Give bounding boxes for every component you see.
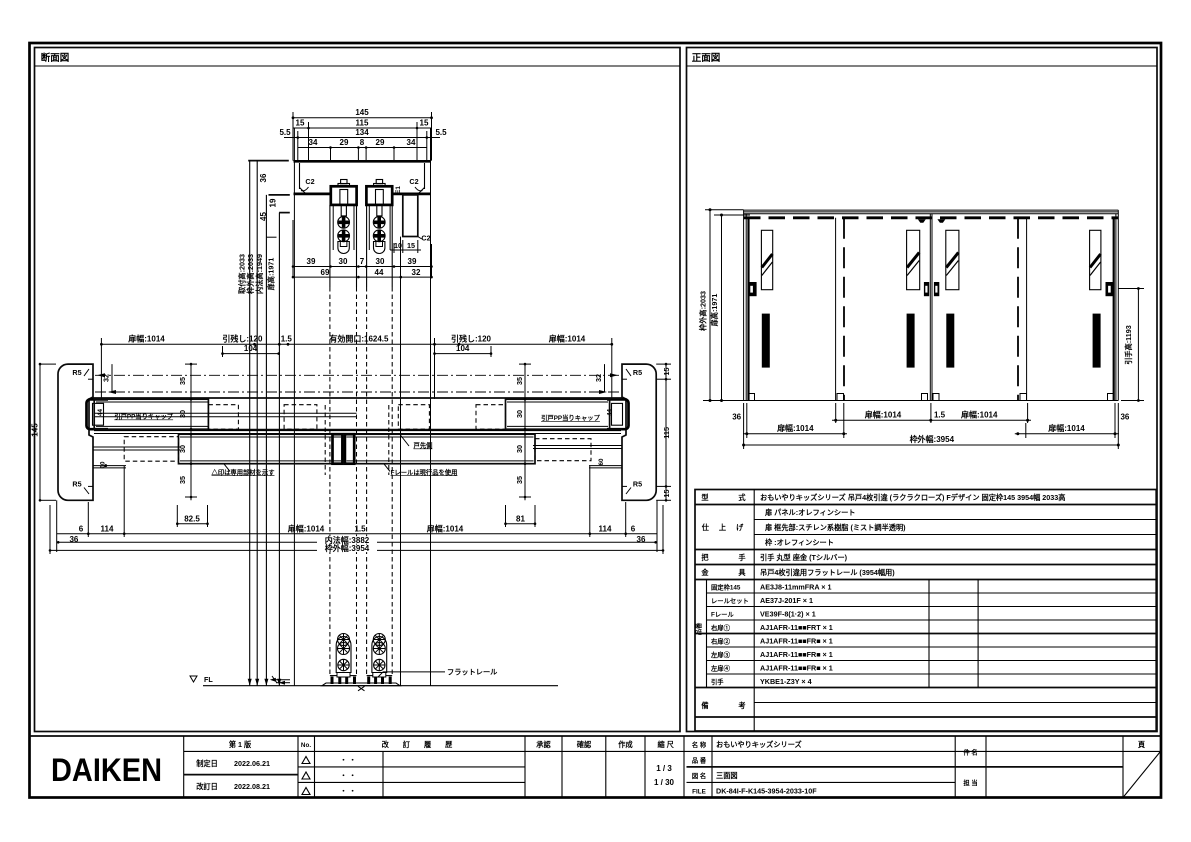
upper band door solid left [94,399,208,429]
window leaf2 [907,230,920,289]
label フラットレール [383,671,445,673]
svg-text:FL: FL [204,675,213,684]
flat rail strip [322,683,400,686]
table outer [695,490,1156,732]
svg-text:三面図: 三面図 [716,771,738,780]
svg-text:32: 32 [594,374,603,382]
phantom door edges dashed [324,405,326,475]
top dim ext verticals [100,338,102,399]
lower band dashed segs [124,437,178,462]
svg-text:114: 114 [599,524,612,533]
svg-text:扉幅:1014: 扉幅:1014 [287,523,325,533]
svg-text:32: 32 [102,374,111,382]
svg-text:6: 6 [79,524,84,533]
page diagonal [1123,751,1161,797]
svg-text:FILE: FILE [692,788,706,795]
svg-text:引手: 引手 [711,677,724,686]
roller assembly right [372,634,387,685]
svg-text:8: 8 [360,138,365,147]
svg-text:AJ1AFR-11■■FR■ × 1: AJ1AFR-11■■FR■ × 1 [760,664,833,673]
handle leaf1 [762,314,770,368]
svg-text:左扉③: 左扉③ [711,650,731,659]
svg-text:右扉②: 右扉② [711,637,731,646]
door stop on frame [403,195,418,237]
handle leaf2 [907,314,915,368]
left jamb outline [58,364,93,500]
sub dim 104 left [222,346,224,357]
svg-text:DAIKEN: DAIKEN [51,752,162,788]
svg-text:29: 29 [340,138,349,147]
svg-text:仕 上 げ: 仕 上 げ [701,523,748,532]
svg-text:2022.08.21: 2022.08.21 [234,782,270,791]
leaf2 side lines [366,205,368,287]
svg-text:30: 30 [376,257,385,266]
svg-text:・ ・: ・ ・ [340,756,356,765]
svg-text:R5: R5 [72,368,81,377]
bottom dim 82.5 [176,505,178,527]
lower guide lines left [93,465,126,467]
svg-text:引手 丸型 座金 (Tシルバー): 引手 丸型 座金 (Tシルバー) [760,553,848,562]
frame left jamb [743,210,745,400]
svg-text:145: 145 [31,423,40,437]
svg-text:1 / 30: 1 / 30 [654,778,675,787]
track centerline 2 [95,391,620,393]
table row lines [695,504,1156,506]
svg-text:改 訂 履 歴: 改 訂 履 歴 [382,740,459,749]
note1 triangle [224,464,230,472]
stop edge long line [400,237,402,686]
svg-text:内法高:1949: 内法高:1949 [255,254,264,294]
svg-text:AJ1AFR-11■■FR■ × 1: AJ1AFR-11■■FR■ × 1 [760,637,833,646]
svg-text:承認: 承認 [536,740,551,749]
svg-text:15: 15 [662,490,671,498]
lower guide lines right [589,465,622,467]
dim 34/29/8/29/34 [298,147,427,149]
lower track lines left [93,446,180,448]
bottom dim row1 [835,403,837,423]
head rail lines [744,209,1119,211]
title block top line [30,735,1161,737]
svg-text:作成: 作成 [618,740,633,749]
svg-text:具: 具 [738,568,746,577]
leaf4 right stile thick [1113,218,1115,401]
right pocket cap [612,403,623,425]
svg-text:35: 35 [515,476,524,484]
leaf1/leaf2 boundary [835,218,837,401]
hidden rail heavy dashed line [744,216,1118,219]
svg-text:△印は専用部材を示す: △印は専用部材を示す [211,467,275,476]
svg-text:145: 145 [355,108,369,117]
track centerline 1 [95,374,620,376]
lower band door solid right [345,434,535,464]
svg-text:引残し:120: 引残し:120 [451,334,492,344]
svg-text:DK-84I-F-K145-3954-2033-10F: DK-84I-F-K145-3954-2033-10F [716,787,817,796]
frame right jamb [1117,210,1119,400]
window leaf3 [946,230,959,289]
svg-text:30: 30 [178,445,187,453]
svg-text:81: 81 [516,514,525,523]
svg-text:15: 15 [420,119,429,128]
edge pull leaf2 [924,282,929,296]
svg-text:頁: 頁 [1138,740,1146,749]
rail center X [358,686,365,691]
svg-text:R5: R5 [72,480,81,489]
svg-text:60: 60 [598,458,605,466]
upper band bottom line [93,429,622,431]
centerline arrows [97,373,105,377]
svg-text:扉幅:1014: 扉幅:1014 [960,410,998,420]
dim 32 right [604,364,606,392]
right chain 15/115/15 [656,363,671,365]
jamb ext verticals [56,500,58,552]
long extension left [293,128,295,686]
height dim lines [249,161,251,686]
upper band track lines [94,430,621,432]
svg-text:2022.06.21: 2022.06.21 [234,759,270,768]
svg-text:34: 34 [309,138,318,147]
svg-text:扉幅:1014: 扉幅:1014 [127,334,165,344]
leaf1 left stile thick [747,218,749,401]
svg-text:YKBE1-Z3Y × 4: YKBE1-Z3Y × 4 [760,677,812,686]
label 戸先側 [400,435,409,447]
edge pull leaf4 [1106,282,1115,296]
svg-text:5.5: 5.5 [279,128,291,137]
edge pull leaf1 [748,282,757,296]
handle leaf4 [1093,314,1101,368]
upper band top line [93,397,622,399]
svg-text:引戸PP当りキャップ: 引戸PP当りキャップ [114,412,173,421]
svg-text:吊戸4枚引違用フラットレール (3954幅用): 吊戸4枚引違用フラットレール (3954幅用) [760,568,895,577]
svg-text:考: 考 [738,701,745,710]
bottom dim 81 [505,505,507,527]
svg-text:44: 44 [97,409,104,417]
handle leaf3 [946,314,954,368]
svg-text:35: 35 [515,377,524,385]
door bottom caps [330,675,337,677]
revision triangles [302,757,310,764]
svg-text:担 当: 担 当 [963,778,977,787]
svg-text:扉幅:1014: 扉幅:1014 [426,523,464,533]
svg-text:36: 36 [1120,412,1129,421]
window leaf4 [1090,230,1101,289]
left panel label strip line [35,65,681,67]
svg-text:備: 備 [701,701,708,710]
hanger marks [918,219,926,223]
dim 145 left rot [39,364,41,500]
right pocket C profile [607,399,629,429]
leaf3/leaf4 boundary [1017,218,1019,401]
svg-text:15: 15 [296,119,305,128]
svg-text:30: 30 [339,257,348,266]
left pocket C profile [87,399,109,429]
svg-text:AJ1AFR-11■■FRT × 1: AJ1AFR-11■■FRT × 1 [760,623,833,632]
svg-text:114: 114 [101,524,114,533]
svg-text:15: 15 [662,368,671,376]
svg-text:確認: 確認 [577,740,592,749]
hanger roller left [330,180,357,254]
svg-text:VE39F-8(1·2) × 1: VE39F-8(1·2) × 1 [760,610,816,619]
svg-text:第 1 版: 第 1 版 [229,740,252,749]
bottom chain row [57,533,657,535]
meeting stile left [333,434,343,464]
svg-text:115: 115 [356,119,369,128]
svg-text:E1: E1 [395,186,402,194]
lower band door solid left [179,434,343,464]
dim 扉高1971 [714,214,750,216]
svg-text:1 / 3: 1 / 3 [656,764,672,773]
edge pull leaf3 [934,282,939,296]
svg-text:扉幅:1014: 扉幅:1014 [776,423,814,433]
svg-text:30: 30 [178,410,187,418]
svg-text:R5: R5 [633,480,642,489]
svg-text:AE3J8-11mmFRA × 1: AE3J8-11mmFRA × 1 [760,583,831,592]
svg-text:Fレールは現行品を使用: Fレールは現行品を使用 [391,467,458,476]
svg-text:引残し:120: 引残し:120 [222,334,263,344]
svg-text:手: 手 [738,553,745,562]
long extension right [430,128,432,686]
dim 枠外幅3954 [49,505,51,554]
svg-text:C2: C2 [305,177,314,186]
svg-text:29: 29 [376,138,385,147]
svg-text:枠外高:2033: 枠外高:2033 [246,254,255,295]
svg-text:フラットレール: フラットレール [447,668,498,677]
svg-text:品番: 品番 [694,622,703,635]
svg-text:36: 36 [259,173,268,182]
dim 145 [292,112,294,161]
dim 32 left [111,364,113,392]
svg-text:把: 把 [701,553,709,562]
FL marker [190,676,197,682]
svg-text:扉幅:1014: 扉幅:1014 [1047,423,1085,433]
svg-text:19: 19 [269,198,278,207]
bottom dim row2 [746,403,748,438]
svg-text:扉幅:1014: 扉幅:1014 [864,410,902,420]
svg-text:AJ1AFR-11■■FR■ × 1: AJ1AFR-11■■FR■ × 1 [760,650,833,659]
svg-text:引手高:1193: 引手高:1193 [1124,325,1133,365]
svg-text:104: 104 [244,344,258,353]
svg-text:名 称: 名 称 [692,740,707,749]
svg-text:戸先側: 戸先側 [414,441,433,450]
svg-text:おもいやりキッズシリーズ: おもいやりキッズシリーズ [716,740,803,749]
svg-text:有効開口:1624.5: 有効開口:1624.5 [329,334,389,344]
svg-text:Fレール: Fレール [711,611,734,619]
svg-text:扉 框先部:スチレン系樹脂 (ミスト調半透明): 扉 框先部:スチレン系樹脂 (ミスト調半透明) [765,523,906,532]
window leaf1 [761,230,772,289]
svg-text:式: 式 [738,493,746,502]
svg-text:固定枠145: 固定枠145 [711,583,741,592]
svg-text:39: 39 [408,257,417,266]
svg-text:15: 15 [407,241,415,250]
svg-text:枠外高:2033: 枠外高:2033 [699,291,708,332]
svg-text:R5: R5 [633,368,642,377]
svg-text:69: 69 [321,268,330,277]
svg-text:39: 39 [307,257,316,266]
svg-text:115: 115 [662,427,671,439]
dim 内法幅3882 [58,541,655,543]
roller assembly left [336,634,351,685]
dim 10/15 stop [393,243,395,253]
svg-text:1.5: 1.5 [354,524,366,533]
right panel label strip line [687,65,1158,67]
chain 35/30/30/35 right [524,364,526,500]
svg-text:右扉①: 右扉① [711,623,731,632]
svg-text:引戸PP当りキャップ: 引戸PP当りキャップ [541,413,600,422]
svg-text:・ ・: ・ ・ [340,787,356,796]
svg-text:枠外幅:3954: 枠外幅:3954 [324,543,370,553]
svg-text:C2: C2 [421,234,430,243]
svg-text:30: 30 [515,410,524,418]
svg-text:30: 30 [515,445,524,453]
dim 39/30/7/30/39 [292,220,294,277]
svg-text:36: 36 [732,412,741,421]
svg-text:5.5: 5.5 [435,128,447,137]
svg-text:件 名: 件 名 [963,748,977,757]
title block verticals [183,736,185,798]
svg-text:104: 104 [456,344,470,353]
svg-text:枠 :オレフィンシート: 枠 :オレフィンシート [764,538,834,547]
right panel border [687,48,1158,732]
dim 15/115/15 [308,122,310,161]
svg-text:型: 型 [701,493,708,502]
svg-text:枠外幅:3954: 枠外幅:3954 [909,434,955,444]
door bottom line [744,400,1119,402]
svg-text:1.5: 1.5 [934,411,946,420]
height dim bottom arrows [248,679,252,686]
note2 F rail [384,464,390,472]
svg-text:正面図: 正面図 [692,53,721,64]
svg-text:扉幅:1014: 扉幅:1014 [548,334,586,344]
upper band dashed segs [208,405,238,430]
svg-text:44: 44 [375,268,384,277]
svg-text:1.5: 1.5 [281,335,293,344]
svg-text:縮 尺: 縮 尺 [658,740,675,749]
leaf1 side lines [329,205,331,287]
svg-text:おもいやりキッズシリーズ 吊戸4枚引違 (ラクラクローズ): おもいやりキッズシリーズ 吊戸4枚引違 (ラクラクローズ) Fデザイン 固定枠1… [760,493,1065,502]
table column lines [753,490,755,732]
svg-text:左扉④: 左扉④ [711,664,731,673]
svg-text:改訂日: 改訂日 [196,782,218,791]
svg-text:7: 7 [360,257,365,266]
lower track lines right [533,445,622,447]
svg-text:C2: C2 [409,177,418,186]
svg-text:扉高:1971: 扉高:1971 [710,294,719,327]
rail housing profile [294,160,431,163]
title block row lines [184,750,1161,752]
dim 枠外高2033 [705,209,744,211]
right jamb outline [622,364,656,500]
height dim ticks [248,160,289,162]
svg-text:扉高:1971: 扉高:1971 [267,258,276,291]
svg-text:6: 6 [631,524,636,533]
long leaf lines dashed [329,287,331,676]
upper band door solid right [506,399,610,429]
svg-text:金: 金 [700,568,709,577]
top dim row [101,343,611,345]
meeting stile right [345,434,354,464]
floor guides [748,394,755,401]
svg-text:図 名: 図 名 [692,771,706,780]
svg-text:32: 32 [412,268,421,277]
svg-text:断面図: 断面図 [41,52,70,64]
dim 5.5/134/5.5 [297,131,299,161]
center meeting stiles [929,214,931,401]
svg-text:134: 134 [355,128,369,137]
left panel border [35,48,681,732]
upper band rail lines [95,412,357,414]
svg-text:35: 35 [178,476,187,484]
hanger roller right [366,180,393,254]
floor line FL [203,685,558,687]
dim 69/44/32 [293,276,432,278]
svg-text:No.: No. [301,742,311,749]
chain 35/30/30/35 left [190,364,192,500]
sub dim 104 right [490,346,492,357]
left pocket cap [93,403,104,425]
bottom dim row3 [743,403,745,449]
svg-text:扉 パネル:オレフィンシート: 扉 パネル:オレフィンシート [765,508,856,517]
svg-text:レールセット: レールセット [711,597,749,605]
svg-text:82.5: 82.5 [184,514,200,523]
svg-text:品 番: 品 番 [692,755,707,764]
svg-text:35: 35 [178,377,187,385]
dim 引手高1193 [1118,288,1144,290]
floor clearance dims [273,679,290,681]
svg-text:制定日: 制定日 [196,759,218,768]
svg-text:・ ・: ・ ・ [340,771,356,780]
svg-text:AE37J-201F × 1: AE37J-201F × 1 [760,596,813,605]
svg-text:34: 34 [407,138,416,147]
